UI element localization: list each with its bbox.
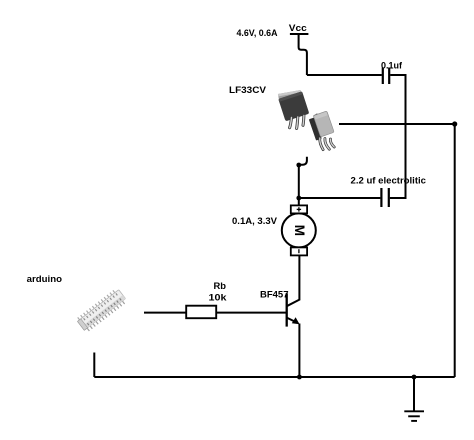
- wire Vcc to C1 left plate: [307, 74, 382, 76]
- transistor Q1 collector diagonal: [287, 299, 300, 306]
- motor M1 plus terminal box: [291, 205, 307, 213]
- transistor Q1 base bar: [286, 293, 288, 326]
- wire hook to node A: [298, 165, 300, 198]
- regulator U2 LF33CV body: [278, 91, 309, 121]
- wire C1 right plate to corner and down to C2: [390, 75, 406, 198]
- node ground junction: [412, 375, 417, 380]
- capacitor C2 2.2uf left plate: [380, 188, 382, 207]
- wire motor minus to Q1 collector: [298, 255, 300, 300]
- svg-text:10k: 10k: [209, 293, 228, 304]
- svg-text:arduino: arduino: [27, 274, 62, 285]
- motor M1 minus terminal box: [291, 247, 307, 255]
- motor M1 plus sign: [297, 207, 301, 211]
- transistor Q1 emitter arrowhead: [292, 317, 300, 324]
- node emitter-rail junction: [297, 375, 302, 380]
- motor M1 body circle: [282, 213, 316, 247]
- wire Vcc stem with jog: [299, 34, 307, 75]
- wire Rb to Q1 base: [216, 312, 287, 314]
- IC U1 arduino DIP package: [77, 289, 127, 332]
- transistor Q1 emitter diagonal: [287, 318, 298, 323]
- node A junction: [296, 196, 301, 201]
- svg-text:0.1A, 3.3V: 0.1A, 3.3V: [232, 216, 278, 227]
- svg-text:2.2 uf electrolitic: 2.2 uf electrolitic: [351, 176, 427, 187]
- svg-text:0.1uf: 0.1uf: [381, 61, 403, 72]
- capacitor C2 2.2uf right plate: [388, 188, 390, 207]
- svg-text:4.6V, 0.6A: 4.6V, 0.6A: [237, 28, 278, 39]
- wire arduino ground drop: [93, 353, 95, 378]
- resistor Rb body: [186, 306, 216, 319]
- svg-text:LF33CV: LF33CV: [229, 85, 267, 96]
- node right rail corner junction: [452, 121, 457, 126]
- capacitor C1 0.1uf left plate: [382, 68, 384, 85]
- wire node A to C2 left plate: [299, 197, 381, 199]
- regulator U2 legs: [290, 116, 304, 129]
- motor M1 minus sign rotated: [298, 249, 300, 253]
- wire right rail vertical: [454, 124, 456, 377]
- wire Q1 emitter down: [298, 324, 300, 378]
- svg-text:Rb: Rb: [214, 281, 227, 292]
- svg-text:M: M: [292, 225, 307, 236]
- svg-text:Vcc: Vcc: [289, 23, 307, 34]
- wire regulator output hook: [299, 157, 307, 165]
- wire bottom ground rail: [94, 376, 454, 378]
- transistor Q2 package photo dark side face: [308, 110, 335, 141]
- svg-text:BF457: BF457: [260, 290, 289, 301]
- transistor Q2 legs: [320, 138, 334, 150]
- wire regulator output to right rail: [339, 123, 455, 125]
- power Vcc symbol bar: [290, 33, 309, 35]
- node hook junction: [296, 163, 301, 168]
- wire node A to motor plus terminal: [298, 198, 300, 206]
- regulator U2 LF33CV metal tab: [278, 90, 302, 99]
- ground symbol: [404, 377, 424, 421]
- wire arduino to Rb: [144, 312, 186, 314]
- capacitor C1 0.1uf right plate: [388, 68, 390, 85]
